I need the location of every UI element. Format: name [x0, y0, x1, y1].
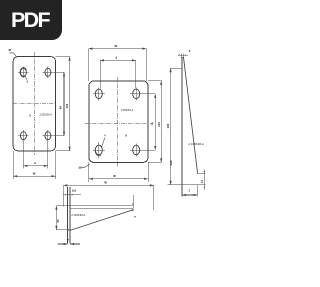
svg-text:W: W — [33, 172, 36, 176]
svg-text:4: 4 — [104, 135, 106, 138]
svg-text:5xM: 5xM — [170, 161, 173, 166]
svg-text:3: 3 — [134, 215, 137, 217]
svg-text:W: W — [104, 181, 107, 185]
svg-text:3: 3 — [189, 190, 191, 193]
svg-text:3: 3 — [189, 49, 191, 53]
svg-text:6: 6 — [125, 133, 127, 137]
svg-text:6: 6 — [27, 81, 29, 84]
svg-text:103: 103 — [157, 122, 161, 127]
svg-text:64: 64 — [58, 106, 62, 110]
svg-text:1355JM-A: 1355JM-A — [121, 108, 133, 112]
svg-text:12: 12 — [201, 180, 204, 183]
svg-text:d 1355JM-A: d 1355JM-A — [188, 142, 204, 146]
svg-text:104: 104 — [65, 103, 69, 108]
svg-text:1355JM-A: 1355JM-A — [40, 113, 52, 117]
svg-text:d: d — [116, 56, 118, 60]
svg-text:74: 74 — [151, 122, 155, 126]
svg-text:30: 30 — [56, 219, 60, 223]
svg-text:5: 5 — [29, 113, 31, 117]
svg-text:d 1355JM-A: d 1355JM-A — [71, 213, 85, 217]
svg-text:W: W — [113, 174, 116, 178]
svg-text:3x2: 3x2 — [72, 190, 77, 193]
svg-text:M: M — [9, 48, 12, 52]
svg-text:W: W — [114, 44, 117, 48]
svg-text:(9): (9) — [79, 167, 82, 170]
svg-text:d: d — [34, 161, 36, 165]
svg-text:103: 103 — [166, 123, 170, 128]
